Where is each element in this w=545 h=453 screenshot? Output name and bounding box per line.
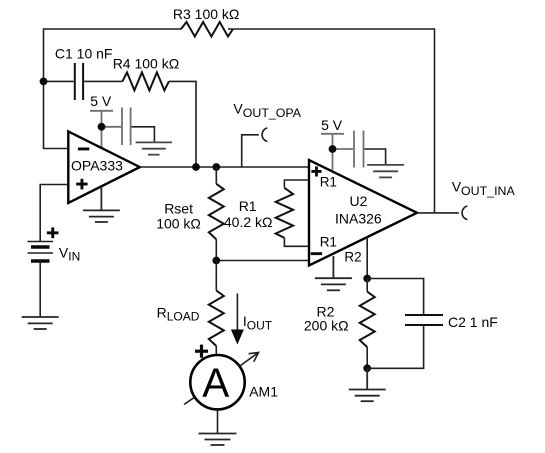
ground at INA326 V- xyxy=(315,256,352,290)
wire R2 pin lead xyxy=(366,237,368,279)
battery VIN xyxy=(28,242,54,262)
svg-text:100 kΩ: 100 kΩ xyxy=(156,215,201,231)
bypass capacitor at INA326 supply xyxy=(354,131,364,168)
wire INA bypass cap to ground xyxy=(365,149,386,165)
wire C1 left lead xyxy=(44,80,74,82)
svg-text:R4 100 kΩ: R4 100 kΩ xyxy=(113,55,180,71)
plus marker ammeter xyxy=(195,345,208,358)
svg-text:R1: R1 xyxy=(239,198,257,214)
op-amp U1 OPA333 xyxy=(68,131,140,203)
svg-text:5 V: 5 V xyxy=(90,93,112,109)
node R4 feedback junction xyxy=(192,163,200,171)
wire C1 to R4 xyxy=(84,80,122,82)
capacitor C2 xyxy=(405,315,443,325)
wire C2 bottom branch xyxy=(367,326,423,368)
ground at AM1 xyxy=(199,434,237,446)
wire supply node to bypass cap xyxy=(102,126,122,128)
wire RLOAD top lead xyxy=(215,261,217,291)
wire Rset bottom lead xyxy=(215,239,217,260)
bypass capacitor at OPA333 supply xyxy=(122,108,131,146)
5V supply for INA326 xyxy=(321,134,344,170)
wire top feedback left segment xyxy=(44,29,182,149)
svg-text:40.2 kΩ: 40.2 kΩ xyxy=(224,214,273,230)
ground at INA326 bypass xyxy=(367,165,404,178)
svg-text:5 V: 5 V xyxy=(321,117,343,133)
node OPA333 supply junction xyxy=(98,123,106,131)
resistor R1 xyxy=(276,188,293,238)
resistor RLOAD xyxy=(209,291,224,347)
in-amp U2 INA326 xyxy=(309,160,417,266)
node Rset top junction xyxy=(212,163,220,171)
minus marker INA326 xyxy=(311,252,322,255)
wire RLOAD bottom lead xyxy=(215,346,217,355)
resistor R4 xyxy=(122,72,168,90)
terminal VOUT_OPA xyxy=(262,128,267,142)
wire inverting rail to INA326 xyxy=(216,260,309,262)
wire battery to ground xyxy=(39,261,41,317)
arrow IOUT xyxy=(231,294,244,345)
wire C2 top branch xyxy=(367,279,423,315)
plus marker INA326 xyxy=(311,166,321,176)
capacitor C1 xyxy=(75,63,83,100)
wire ammeter to ground xyxy=(217,409,219,433)
plus marker battery xyxy=(47,227,59,238)
resistor Rset xyxy=(209,184,224,240)
wire top feedback right segment xyxy=(228,29,435,213)
node R2 top junction xyxy=(363,275,371,283)
svg-text:R2: R2 xyxy=(344,249,361,264)
node INA326 supply junction xyxy=(329,145,337,153)
svg-text:U2: U2 xyxy=(350,193,368,209)
5V supply for OPA333 xyxy=(90,111,113,148)
ammeter AM1 xyxy=(190,355,244,409)
plus marker OPA333 xyxy=(76,179,87,190)
wire bypass cap to ground xyxy=(132,127,155,143)
terminal VOUT_INA xyxy=(462,206,467,220)
svg-text:OPA333: OPA333 xyxy=(71,157,123,173)
resistor R2 xyxy=(360,292,375,348)
svg-text:C1 10 nF: C1 10 nF xyxy=(55,45,113,61)
svg-text:A: A xyxy=(202,360,229,406)
wire R1 top lead xyxy=(284,180,309,188)
svg-text:200 kΩ: 200 kΩ xyxy=(304,317,349,333)
wire R4 to output rail xyxy=(169,81,196,167)
wire VOUT_OPA tap xyxy=(242,135,259,167)
wire OPA333 noninverting input xyxy=(40,185,68,242)
svg-text:AM1: AM1 xyxy=(249,383,278,399)
minus marker OPA333 xyxy=(78,148,89,151)
svg-text:R1: R1 xyxy=(320,175,337,190)
wire INA326 output xyxy=(417,212,459,214)
wire Rset top lead xyxy=(215,167,217,184)
ground at OPA333 bypass xyxy=(136,142,173,154)
svg-text:INA326: INA326 xyxy=(335,210,382,226)
wire R1 bottom lead xyxy=(284,238,309,246)
wire R2 top lead xyxy=(366,279,368,292)
wire supply node to INA bypass cap xyxy=(333,148,354,150)
wire R2 bottom lead xyxy=(366,347,368,368)
ground at VIN xyxy=(22,317,59,329)
node R2 bottom junction xyxy=(363,364,371,372)
svg-text:C2 1 nF: C2 1 nF xyxy=(448,314,498,330)
arrow across ammeter xyxy=(184,353,259,405)
svg-text:Rset: Rset xyxy=(164,201,193,217)
svg-text:R3 100 kΩ: R3 100 kΩ xyxy=(173,6,240,22)
wire OPA333 output rail to INA326 xyxy=(140,166,309,168)
node Rset bottom junction xyxy=(212,257,220,265)
ground at R2 xyxy=(349,368,386,401)
resistor R3 xyxy=(181,22,233,37)
svg-text:R1: R1 xyxy=(320,234,337,249)
ground at OPA333 V- xyxy=(83,187,120,222)
node C1 feedback junction xyxy=(40,78,48,86)
